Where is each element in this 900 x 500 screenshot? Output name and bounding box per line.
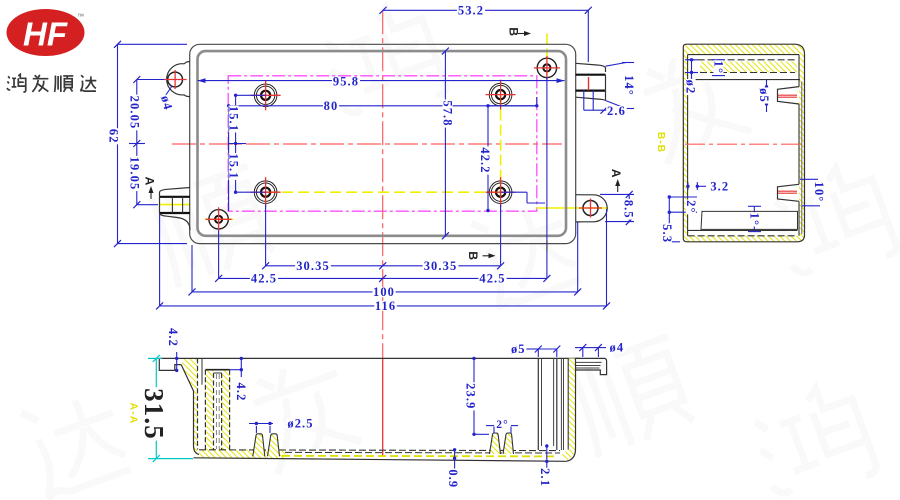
dimension phi5 BB — [757, 80, 771, 112]
svg-text:1°: 1° — [747, 213, 761, 226]
svg-text:HF: HF — [23, 16, 68, 53]
section A-A ear flange — [576, 358, 607, 374]
magenta PCB outline — [228, 76, 537, 211]
screw boss 2 — [486, 80, 516, 110]
section B-B lid groove — [688, 60, 800, 80]
dimension 23.9 — [463, 357, 489, 436]
logo HF ellipse — [7, 9, 85, 56]
dimension 20.05 19.05 — [127, 76, 164, 208]
dimension phi2.5 — [249, 416, 315, 433]
svg-text:B-B: B-B — [655, 132, 666, 153]
section marker A left — [143, 177, 157, 199]
dimension 2.1 — [538, 444, 552, 487]
latch tab top-right — [576, 63, 606, 101]
svg-text:42.2: 42.2 — [478, 147, 492, 173]
label 10deg — [800, 179, 826, 206]
dimension 4.2 rib — [230, 357, 248, 403]
svg-text:0.9: 0.9 — [446, 469, 460, 488]
dimension 2.6 — [584, 91, 627, 118]
section B-B boss lower — [778, 184, 800, 201]
latch tab bottom-left — [160, 188, 191, 231]
section A-A floor — [194, 450, 567, 462]
dimension 5.3 — [660, 212, 680, 244]
svg-text:62: 62 — [107, 129, 121, 144]
dimension 62 — [107, 41, 187, 247]
svg-text:100: 100 — [373, 285, 395, 299]
label 14 deg — [606, 63, 637, 109]
dimension 42.2 — [478, 104, 537, 212]
section A-A right wall — [560, 358, 576, 461]
svg-text:95.8: 95.8 — [333, 75, 359, 89]
centerline vertical — [382, 10, 384, 358]
svg-text:57.8: 57.8 — [441, 100, 455, 126]
section B-B floor platform — [688, 211, 798, 230]
svg-text:4.2: 4.2 — [166, 328, 180, 347]
svg-text:10°: 10° — [812, 182, 826, 203]
dimension 3.2 — [686, 179, 730, 193]
svg-text:14°: 14° — [622, 75, 636, 96]
dimension 8.5 — [600, 191, 636, 225]
section A-A ribs — [205, 370, 229, 450]
svg-text:30.35: 30.35 — [424, 259, 458, 273]
dimension 15.1 pair — [227, 94, 266, 194]
svg-text:4.2: 4.2 — [234, 383, 248, 402]
label phi4 — [158, 86, 175, 112]
screw boss 4 — [486, 177, 516, 207]
svg-text:ø2: ø2 — [684, 80, 698, 95]
section B-B centerline — [685, 143, 803, 145]
dimension phi2 — [684, 58, 698, 95]
svg-text:ø4: ø4 — [610, 340, 625, 354]
svg-text:A: A — [143, 177, 157, 187]
svg-text:42.5: 42.5 — [479, 271, 505, 285]
svg-text:31.5: 31.5 — [139, 388, 169, 440]
dimension 116 — [156, 299, 610, 313]
dimension 100 — [189, 285, 582, 299]
svg-text:ø2.5: ø2.5 — [287, 416, 313, 430]
section A-A posts phi2.5 — [253, 434, 280, 457]
section A-A label — [128, 403, 140, 425]
screw boss 3 — [251, 177, 281, 207]
svg-text:A: A — [609, 169, 623, 179]
svg-text:116: 116 — [375, 299, 396, 313]
svg-text:42.5: 42.5 — [251, 271, 277, 285]
svg-text:19.05: 19.05 — [127, 157, 141, 191]
section A-A top edge — [159, 357, 580, 359]
svg-text:3.2: 3.2 — [710, 179, 729, 193]
svg-text:2°: 2° — [684, 200, 698, 213]
svg-text:30.35: 30.35 — [296, 259, 330, 273]
dimension phi4 AA — [575, 340, 625, 357]
label 1deg bottom — [747, 206, 761, 231]
dimension 31.5 — [139, 355, 193, 462]
svg-text:1°: 1° — [711, 61, 725, 74]
section line B-B vertical — [501, 34, 547, 255]
section B-B wall — [683, 44, 804, 242]
extension lines bottom — [160, 77, 607, 306]
svg-text:B: B — [466, 251, 480, 261]
screw boss 1 — [251, 80, 281, 110]
svg-text:15.1: 15.1 — [227, 106, 241, 132]
centerline vertical AA — [382, 359, 384, 457]
enclosure inner lip — [198, 51, 567, 236]
svg-text:53.2: 53.2 — [458, 3, 484, 17]
yellow line bottom bosses — [266, 191, 500, 193]
dimension 30.35 pair — [262, 259, 504, 273]
mounting ear top-left — [164, 62, 190, 97]
enclosure outer outline — [190, 44, 576, 243]
svg-text:ø5: ø5 — [757, 88, 771, 103]
section A-A posts 2deg — [490, 433, 514, 454]
dimension phi5 AA — [510, 342, 560, 357]
label 2deg AA — [486, 419, 518, 433]
section B-B boss upper — [778, 87, 800, 104]
corner boss 1 — [534, 56, 560, 80]
svg-text:5.3: 5.3 — [660, 224, 674, 243]
section B-B label — [655, 132, 666, 153]
svg-text:B: B — [507, 27, 521, 37]
svg-text:20.05: 20.05 — [127, 96, 141, 130]
section line A-A segments — [160, 205, 609, 220]
section A-A left wall — [159, 358, 202, 455]
section marker B bottom — [466, 251, 496, 261]
svg-text:2.1: 2.1 — [538, 468, 552, 487]
svg-text:80: 80 — [324, 99, 339, 113]
dimension 53.2 — [380, 3, 592, 62]
mounting ear bottom-right — [576, 195, 608, 222]
section marker A right — [609, 169, 623, 192]
svg-text:™: ™ — [77, 14, 84, 21]
dimension 42.5 pair — [215, 271, 550, 285]
dimension 4.2 flange — [166, 327, 180, 372]
dimension 57.8 — [441, 48, 455, 240]
logo company name — [7, 74, 96, 92]
section A-A phi5 tube — [538, 358, 557, 450]
corner boss 2 — [206, 207, 232, 231]
svg-text:15.1: 15.1 — [227, 153, 241, 179]
label 2deg — [668, 195, 698, 214]
svg-text:ø5: ø5 — [511, 342, 526, 356]
section A-A slot line — [201, 358, 203, 384]
section A-A slot right — [561, 358, 563, 450]
section marker B top — [507, 27, 532, 37]
dimension 0.9 — [446, 448, 460, 489]
dimension 80 — [227, 97, 539, 211]
centerline horizontal — [172, 143, 562, 145]
svg-text:2°: 2° — [496, 419, 509, 431]
svg-text:8.5: 8.5 — [622, 200, 636, 219]
label 1deg top — [711, 60, 725, 76]
svg-text:23.9: 23.9 — [463, 383, 477, 409]
svg-text:2.6: 2.6 — [607, 104, 626, 118]
svg-text:A-A: A-A — [128, 403, 140, 425]
dimension 95.8 — [198, 75, 565, 89]
